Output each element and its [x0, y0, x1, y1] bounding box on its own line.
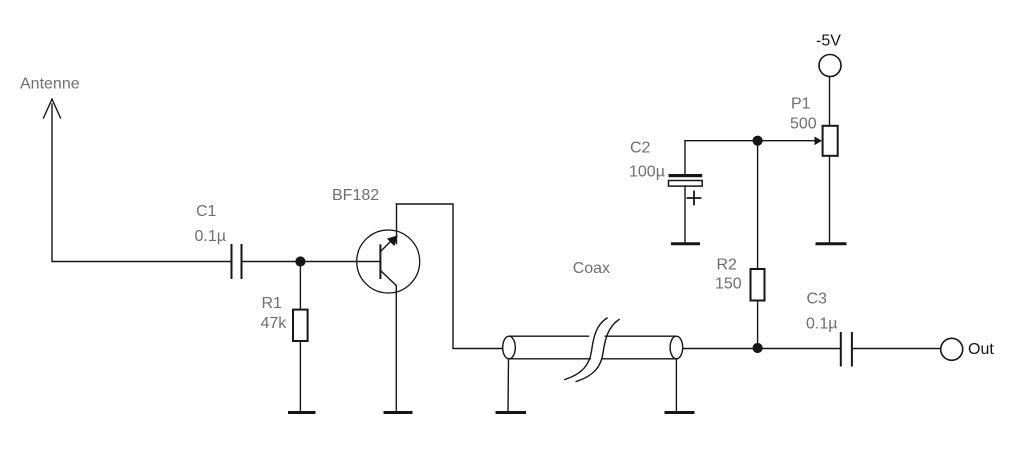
svg-text:BF182: BF182 — [332, 187, 379, 204]
svg-text:Out: Out — [968, 341, 994, 358]
svg-text:P1: P1 — [791, 96, 811, 113]
svg-text:100µ: 100µ — [629, 164, 665, 181]
svg-text:R1: R1 — [262, 295, 283, 312]
svg-text:C1: C1 — [196, 203, 217, 220]
svg-text:Antenne: Antenne — [20, 76, 80, 93]
svg-text:R2: R2 — [717, 257, 738, 274]
svg-text:500: 500 — [790, 115, 817, 132]
svg-text:0.1µ: 0.1µ — [806, 316, 837, 333]
svg-text:0.1µ: 0.1µ — [195, 228, 226, 245]
svg-text:C3: C3 — [807, 290, 828, 307]
svg-text:Coax: Coax — [573, 260, 610, 277]
svg-text:47k: 47k — [261, 315, 288, 332]
svg-text:C2: C2 — [630, 140, 651, 157]
svg-text:150: 150 — [715, 276, 742, 293]
svg-text:-5V: -5V — [816, 33, 841, 50]
